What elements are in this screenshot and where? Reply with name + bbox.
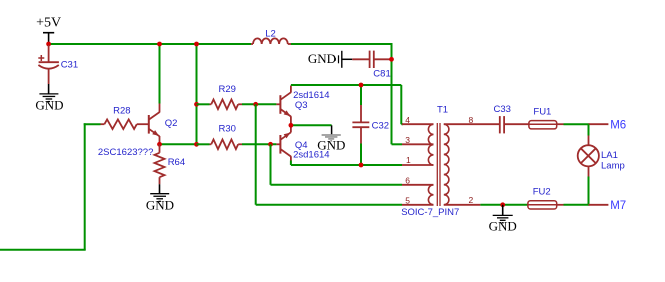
wire M6 down to lamp (588, 124, 590, 135)
wire R30 junction down (270, 144, 272, 185)
svg-text:R30: R30 (218, 124, 235, 135)
wire pin2 to FU2 (480, 204, 528, 206)
svg-text:R64: R64 (168, 157, 185, 168)
wire pin6 row (271, 184, 403, 186)
wire emitter junction to ground (291, 124, 332, 126)
wire vertical rail to R29 R30 (196, 44, 198, 144)
wire R28 left lead (84, 123, 101, 125)
node junction C32 top (359, 83, 364, 88)
label R30 (218, 124, 235, 135)
label R64 (168, 157, 185, 168)
svg-text:R29: R29 (218, 84, 235, 95)
node junction Q2 collector on rail (157, 42, 162, 47)
transformer T1 pin 3 line (402, 143, 434, 145)
transformer T1 core (437, 123, 440, 206)
label SOIC-7_PIN7 of T1 (401, 207, 459, 218)
transformer T1 pin 8 line (444, 123, 500, 125)
label 2sd1614 comment of Q4 (293, 149, 329, 160)
label GND below pin2 wire (489, 219, 517, 234)
pin number 8 (469, 115, 474, 125)
label Q2 (165, 118, 178, 129)
transformer T1 pin 4 line (402, 123, 434, 125)
node junction R29 left (194, 102, 199, 107)
wire R30 left lead (197, 143, 210, 145)
label R28 (113, 105, 130, 116)
wire C32 top lead (360, 85, 362, 105)
label C81 (373, 69, 390, 80)
transformer T1 pin 5 line (402, 204, 434, 206)
label Lamp (601, 160, 625, 171)
wire C32 bottom lead (360, 144, 362, 166)
svg-text:Lamp: Lamp (601, 160, 625, 171)
resistor R30 (210, 140, 243, 150)
capacitor C31 plus sign (38, 55, 44, 61)
svg-text:SOIC-7_PIN7: SOIC-7_PIN7 (401, 207, 459, 218)
wire down to pin4 (400, 85, 402, 124)
wire lamp down to M7 (588, 177, 590, 205)
svg-text:M6: M6 (610, 120, 626, 132)
transformer T1 pin 1 line (402, 164, 434, 166)
svg-text:3: 3 (405, 135, 410, 145)
svg-text:GND: GND (317, 138, 345, 153)
node junction R30 right (268, 142, 273, 147)
wire left vertical to bottom (84, 123, 86, 250)
node junction C81 (389, 57, 394, 62)
resistor R64 (155, 144, 165, 184)
node junction R30 left (194, 142, 199, 147)
label C31 (61, 59, 78, 70)
label LA1 (601, 150, 618, 161)
fuse FU2 (528, 201, 564, 209)
label FU1 (533, 106, 551, 117)
label C32 (372, 120, 389, 131)
wire Q2 collector to +5V rail (159, 44, 161, 104)
pin number 1 (406, 155, 411, 165)
svg-text:Q2: Q2 (165, 118, 178, 129)
wire pin4 stub (401, 123, 403, 125)
ground GND at emitter junction (gray) (322, 125, 341, 141)
label GND below R64 (146, 198, 174, 213)
label FU2 (533, 187, 551, 198)
transistor Q2 (149, 103, 160, 144)
svg-text:5: 5 (405, 195, 410, 205)
ground GND below R64 (150, 184, 169, 201)
node junction R29 right (253, 102, 258, 107)
svg-text:R28: R28 (113, 105, 130, 116)
label 2sd1614 comment of Q3 (293, 90, 329, 101)
resistor R28 (101, 119, 149, 129)
wire +5V rail right segment (291, 43, 393, 45)
capacitor C81 (352, 51, 390, 68)
svg-text:8: 8 (469, 115, 474, 125)
transformer T1 primary winding upper (428, 124, 433, 165)
wire Q4 collector down (290, 161, 292, 166)
inductor L2 (251, 38, 291, 44)
wire FU2 to M7 (564, 204, 590, 206)
svg-text:FU2: FU2 (533, 187, 551, 198)
power +5V label (36, 16, 61, 31)
svg-text:GND: GND (35, 98, 63, 113)
node junction Q2 emitter (157, 142, 162, 147)
svg-text:2SC1623???: 2SC1623??? (98, 147, 153, 158)
pin number 6 (405, 176, 410, 186)
wire rail corner down (391, 43, 393, 144)
node junction GND tap (500, 202, 505, 207)
lamp LA1 (578, 136, 599, 177)
label GND below C31 (35, 98, 63, 113)
wire bottom-left horizontal (0, 249, 86, 251)
node junction rail x196 (194, 42, 199, 47)
svg-text:M7: M7 (610, 200, 626, 212)
pin number 4 (405, 115, 410, 125)
capacitor C32 (352, 105, 369, 144)
capacitor C33 (500, 116, 529, 133)
pin number 2 (469, 195, 474, 205)
svg-text:C31: C31 (61, 59, 78, 70)
ground bars left of C81 (rotated) (335, 51, 352, 68)
svg-text:L2: L2 (265, 28, 276, 39)
wire R29 left lead (197, 103, 210, 105)
wire R29 junction down (255, 104, 257, 205)
wire pin5 row (256, 204, 402, 206)
svg-text:+5V: +5V (36, 16, 61, 31)
svg-text:Q3: Q3 (295, 100, 308, 111)
wire R29 to Q3 base (242, 103, 276, 105)
resistor R29 (210, 100, 243, 110)
svg-text:1: 1 (406, 155, 411, 165)
svg-text:C32: C32 (372, 120, 389, 131)
svg-text:4: 4 (405, 115, 410, 125)
svg-text:C81: C81 (373, 69, 390, 80)
svg-text:T1: T1 (437, 105, 448, 116)
svg-text:2: 2 (469, 195, 474, 205)
fuse FU1 (529, 121, 564, 129)
ground GND below C31 (39, 84, 58, 102)
pin number 5 (405, 195, 410, 205)
power +5V bar symbol (43, 33, 54, 43)
label Q4 (295, 140, 308, 151)
transformer T1 pin 2 line (444, 204, 481, 206)
svg-text:GND: GND (146, 198, 174, 213)
net stub M7 (589, 204, 609, 206)
svg-text:6: 6 (405, 176, 410, 186)
wire Q2 emitter to R30 column (160, 143, 197, 145)
svg-text:GND: GND (489, 219, 517, 234)
node junction at power (46, 42, 51, 47)
transistor Q3 (276, 86, 291, 126)
capacitor C31 pin top (48, 45, 50, 62)
wire Q3 collector row (291, 84, 401, 86)
capacitor C31 pin bottom (48, 69, 50, 84)
wire to pin3 (392, 143, 403, 145)
wire Q4 collector row (291, 164, 402, 166)
transformer T1 primary winding lower (428, 185, 433, 205)
transformer T1 pin 6 line (402, 184, 434, 186)
wire FU1 to M6 (564, 123, 590, 125)
label Q3 (295, 100, 308, 111)
label GND left of C81 (308, 51, 336, 66)
node junction C32 bottom (359, 163, 364, 168)
label R29 (218, 84, 235, 95)
capacitor C31 top plate (39, 61, 59, 63)
transistor Q4 (276, 125, 291, 161)
label 2SC1623??? comment of Q2 (98, 147, 153, 158)
capacitor C31 bottom arc (38, 65, 58, 69)
node junction Q3 Q4 emitters (289, 123, 294, 128)
transformer T1 secondary winding (444, 124, 449, 205)
label M6 (610, 120, 626, 132)
svg-text:GND: GND (308, 51, 336, 66)
wire +5V rail left segment (49, 43, 251, 45)
label L2 (265, 28, 276, 39)
net stub M6 (589, 123, 609, 125)
label T1 (437, 105, 448, 116)
svg-text:C33: C33 (494, 104, 511, 115)
label GND at emitter junction (317, 138, 345, 153)
wire R30 to Q4 base (242, 143, 276, 145)
ground GND below pin2 wire (493, 205, 513, 223)
label C33 (494, 104, 511, 115)
label M7 (610, 200, 626, 212)
svg-text:FU1: FU1 (533, 106, 551, 117)
pin number 3 (405, 135, 410, 145)
